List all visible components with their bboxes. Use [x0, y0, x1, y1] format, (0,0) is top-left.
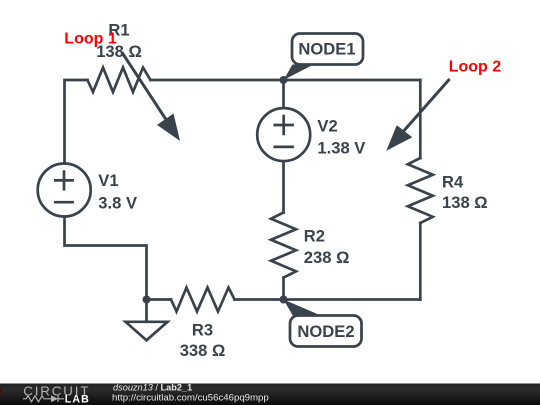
wire top-right corner to R4 top [419, 80, 422, 158]
svg-text:dsouzn13 / Lab2_1: dsouzn13 / Lab2_1 [113, 382, 192, 392]
svg-text:V1: V1 [98, 171, 118, 190]
svg-text:NODE2: NODE2 [297, 322, 354, 341]
wire NODE1 to V2 top [282, 80, 285, 108]
ground [126, 322, 168, 341]
node junction dot NODE2 [280, 296, 288, 304]
V2 plus sign [275, 116, 293, 134]
voltage source V1 [38, 164, 91, 217]
annotation Loop 1 arrow [122, 52, 180, 141]
resistor R4 [408, 158, 433, 223]
resistor R3 [171, 288, 235, 312]
svg-text:1.38 V: 1.38 V [317, 138, 365, 157]
svg-text:Loop 2: Loop 2 [449, 58, 502, 75]
V1 plus sign [55, 172, 72, 190]
node junction dot ground [143, 296, 151, 304]
wire V1 bottom jog to ground junction [65, 217, 147, 300]
svg-text:238 Ω: 238 Ω [304, 248, 350, 267]
resistor R1 [88, 68, 151, 93]
resistor R2 [271, 213, 296, 278]
wire R2 bottom to NODE2 [282, 278, 285, 300]
CircuitLab logo resistor-diode glyph [23, 396, 64, 403]
ground wire stub [145, 300, 148, 322]
node NODE2 flag box [290, 316, 362, 347]
svg-text:V2: V2 [317, 117, 337, 136]
svg-text:LAB: LAB [65, 393, 90, 405]
svg-text:338 Ω: 338 Ω [180, 341, 226, 360]
svg-text:138 Ω: 138 Ω [442, 193, 488, 212]
CircuitLab logo diode triangle [51, 395, 58, 402]
wire R4 bottom to bottom-right corner [419, 223, 422, 300]
wire R3 to NODE2 to bottom-right corner [235, 298, 421, 301]
node NODE1 flag box [292, 34, 363, 65]
svg-text:R2: R2 [304, 227, 325, 246]
footer red accent [0, 388, 3, 396]
svg-text:3.8 V: 3.8 V [98, 194, 137, 213]
svg-text:http://circuitlab.com/cu56c46p: http://circuitlab.com/cu56c46pq9mpp [112, 392, 269, 403]
wire ground junction to R3 [147, 298, 172, 301]
footer bar [0, 384, 540, 405]
node NODE1 flag callout wedge [284, 65, 314, 81]
svg-text:NODE1: NODE1 [298, 40, 355, 59]
svg-text:R3: R3 [192, 321, 213, 340]
wire V2 bottom to R2 top [282, 161, 285, 212]
V1 minus sign [55, 201, 72, 204]
svg-text:Loop 1: Loop 1 [64, 30, 117, 47]
wire top-left vertical (V1 top to R1) [65, 80, 88, 164]
node junction dot NODE1 [280, 76, 288, 84]
svg-text:R4: R4 [442, 172, 464, 191]
node NODE2 flag callout wedge [284, 300, 323, 317]
annotation Loop 2 arrow [386, 79, 449, 151]
V2 minus sign [275, 146, 293, 149]
voltage source V2 [257, 108, 310, 161]
wire R1 to NODE1 to top-right corner [151, 79, 421, 82]
